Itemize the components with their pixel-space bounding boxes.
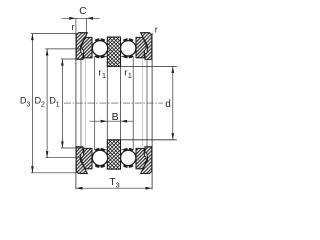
seating ring upper-right <box>141 33 152 60</box>
svg-text:1: 1 <box>56 101 60 108</box>
centerline (bearing axis) <box>64 102 163 104</box>
C arrow right <box>87 17 94 20</box>
cage sections ball 1 <box>95 39 104 57</box>
D2 arrow up <box>46 49 49 56</box>
C extension left <box>75 18 77 32</box>
ball 2 <box>121 41 136 56</box>
shoulder line under ball row top-right <box>121 55 134 57</box>
seating ring upper-left <box>76 33 87 60</box>
wire: r1 leader line right <box>132 56 134 150</box>
sphered washer upper-right <box>136 37 146 57</box>
cage sections ball 4 <box>123 149 132 167</box>
dimension B line <box>89 120 133 122</box>
shaft washer upper (section) <box>107 37 120 66</box>
wire: faint projection left <box>85 59 87 146</box>
wire: bore line bottom (d extension) <box>107 139 177 141</box>
svg-text:r: r <box>72 22 75 32</box>
B arrow right <box>121 120 128 123</box>
T3 arrow left <box>76 187 83 190</box>
wire: faint projection right <box>142 59 144 146</box>
shoulder line above ball row bottom-right <box>121 149 134 151</box>
svg-text:1: 1 <box>102 71 106 80</box>
cage sections ball 3 <box>95 149 104 167</box>
C arrow left <box>69 17 76 20</box>
wire: r1 leader line left <box>94 56 96 150</box>
D3 arrow up <box>31 34 34 41</box>
D3 extension bottom <box>31 172 78 174</box>
D1 arrow up <box>61 59 64 66</box>
D2 arrow down <box>46 151 49 158</box>
sphered washer lower-right <box>136 148 146 168</box>
shaft washer lower (section) <box>107 140 120 169</box>
wire: bore line top (d extension) <box>107 65 177 67</box>
D3 extension top <box>31 33 78 35</box>
wire: seat ring bore projection left <box>80 59 82 146</box>
shoulder line under ball row top-left <box>95 55 108 57</box>
T3 arrow right <box>146 187 153 190</box>
D1 dimension line <box>61 59 63 148</box>
shoulder line above ball row bottom-left <box>95 149 108 151</box>
ball 4 <box>121 150 136 165</box>
D1 extension top <box>61 58 85 60</box>
wire: B extension / shaft washer left face <box>106 37 108 169</box>
D2 extension bottom <box>45 157 81 159</box>
seating ring lower-right <box>141 147 152 174</box>
C extension right <box>86 18 88 36</box>
svg-text:2: 2 <box>41 101 45 108</box>
D2 extension top <box>45 48 81 50</box>
svg-text:r: r <box>155 24 158 34</box>
seating ring lower-left <box>76 147 87 174</box>
dimension d line <box>172 66 174 139</box>
dimension C line <box>62 17 100 19</box>
dimension T3 line <box>76 187 152 189</box>
sphered washer upper-left <box>82 37 92 57</box>
ball 1 <box>92 41 107 56</box>
wire: seat ring bore projection right <box>146 59 148 146</box>
svg-text:C: C <box>79 6 86 17</box>
d arrow down <box>172 133 175 140</box>
D2 dimension line <box>46 49 48 158</box>
ball 3 <box>92 150 107 165</box>
svg-text:d: d <box>165 99 171 110</box>
wire: T3 right extension line <box>151 33 153 190</box>
wire: B extension / shaft washer right face <box>120 37 122 169</box>
D3 arrow down <box>31 166 34 173</box>
D3 dimension line <box>31 34 33 173</box>
D1 extension bottom <box>61 147 85 149</box>
svg-text:3: 3 <box>26 101 30 108</box>
svg-text:1: 1 <box>128 71 132 80</box>
D1 arrow down <box>61 141 64 148</box>
B arrow left <box>101 120 108 123</box>
sphered washer lower-left <box>82 148 92 168</box>
svg-text:3: 3 <box>116 180 120 189</box>
cage sections ball 2 <box>123 39 132 57</box>
wire: T3 left extension line <box>75 33 77 190</box>
svg-text:B: B <box>112 111 119 123</box>
d arrow up <box>172 66 175 73</box>
